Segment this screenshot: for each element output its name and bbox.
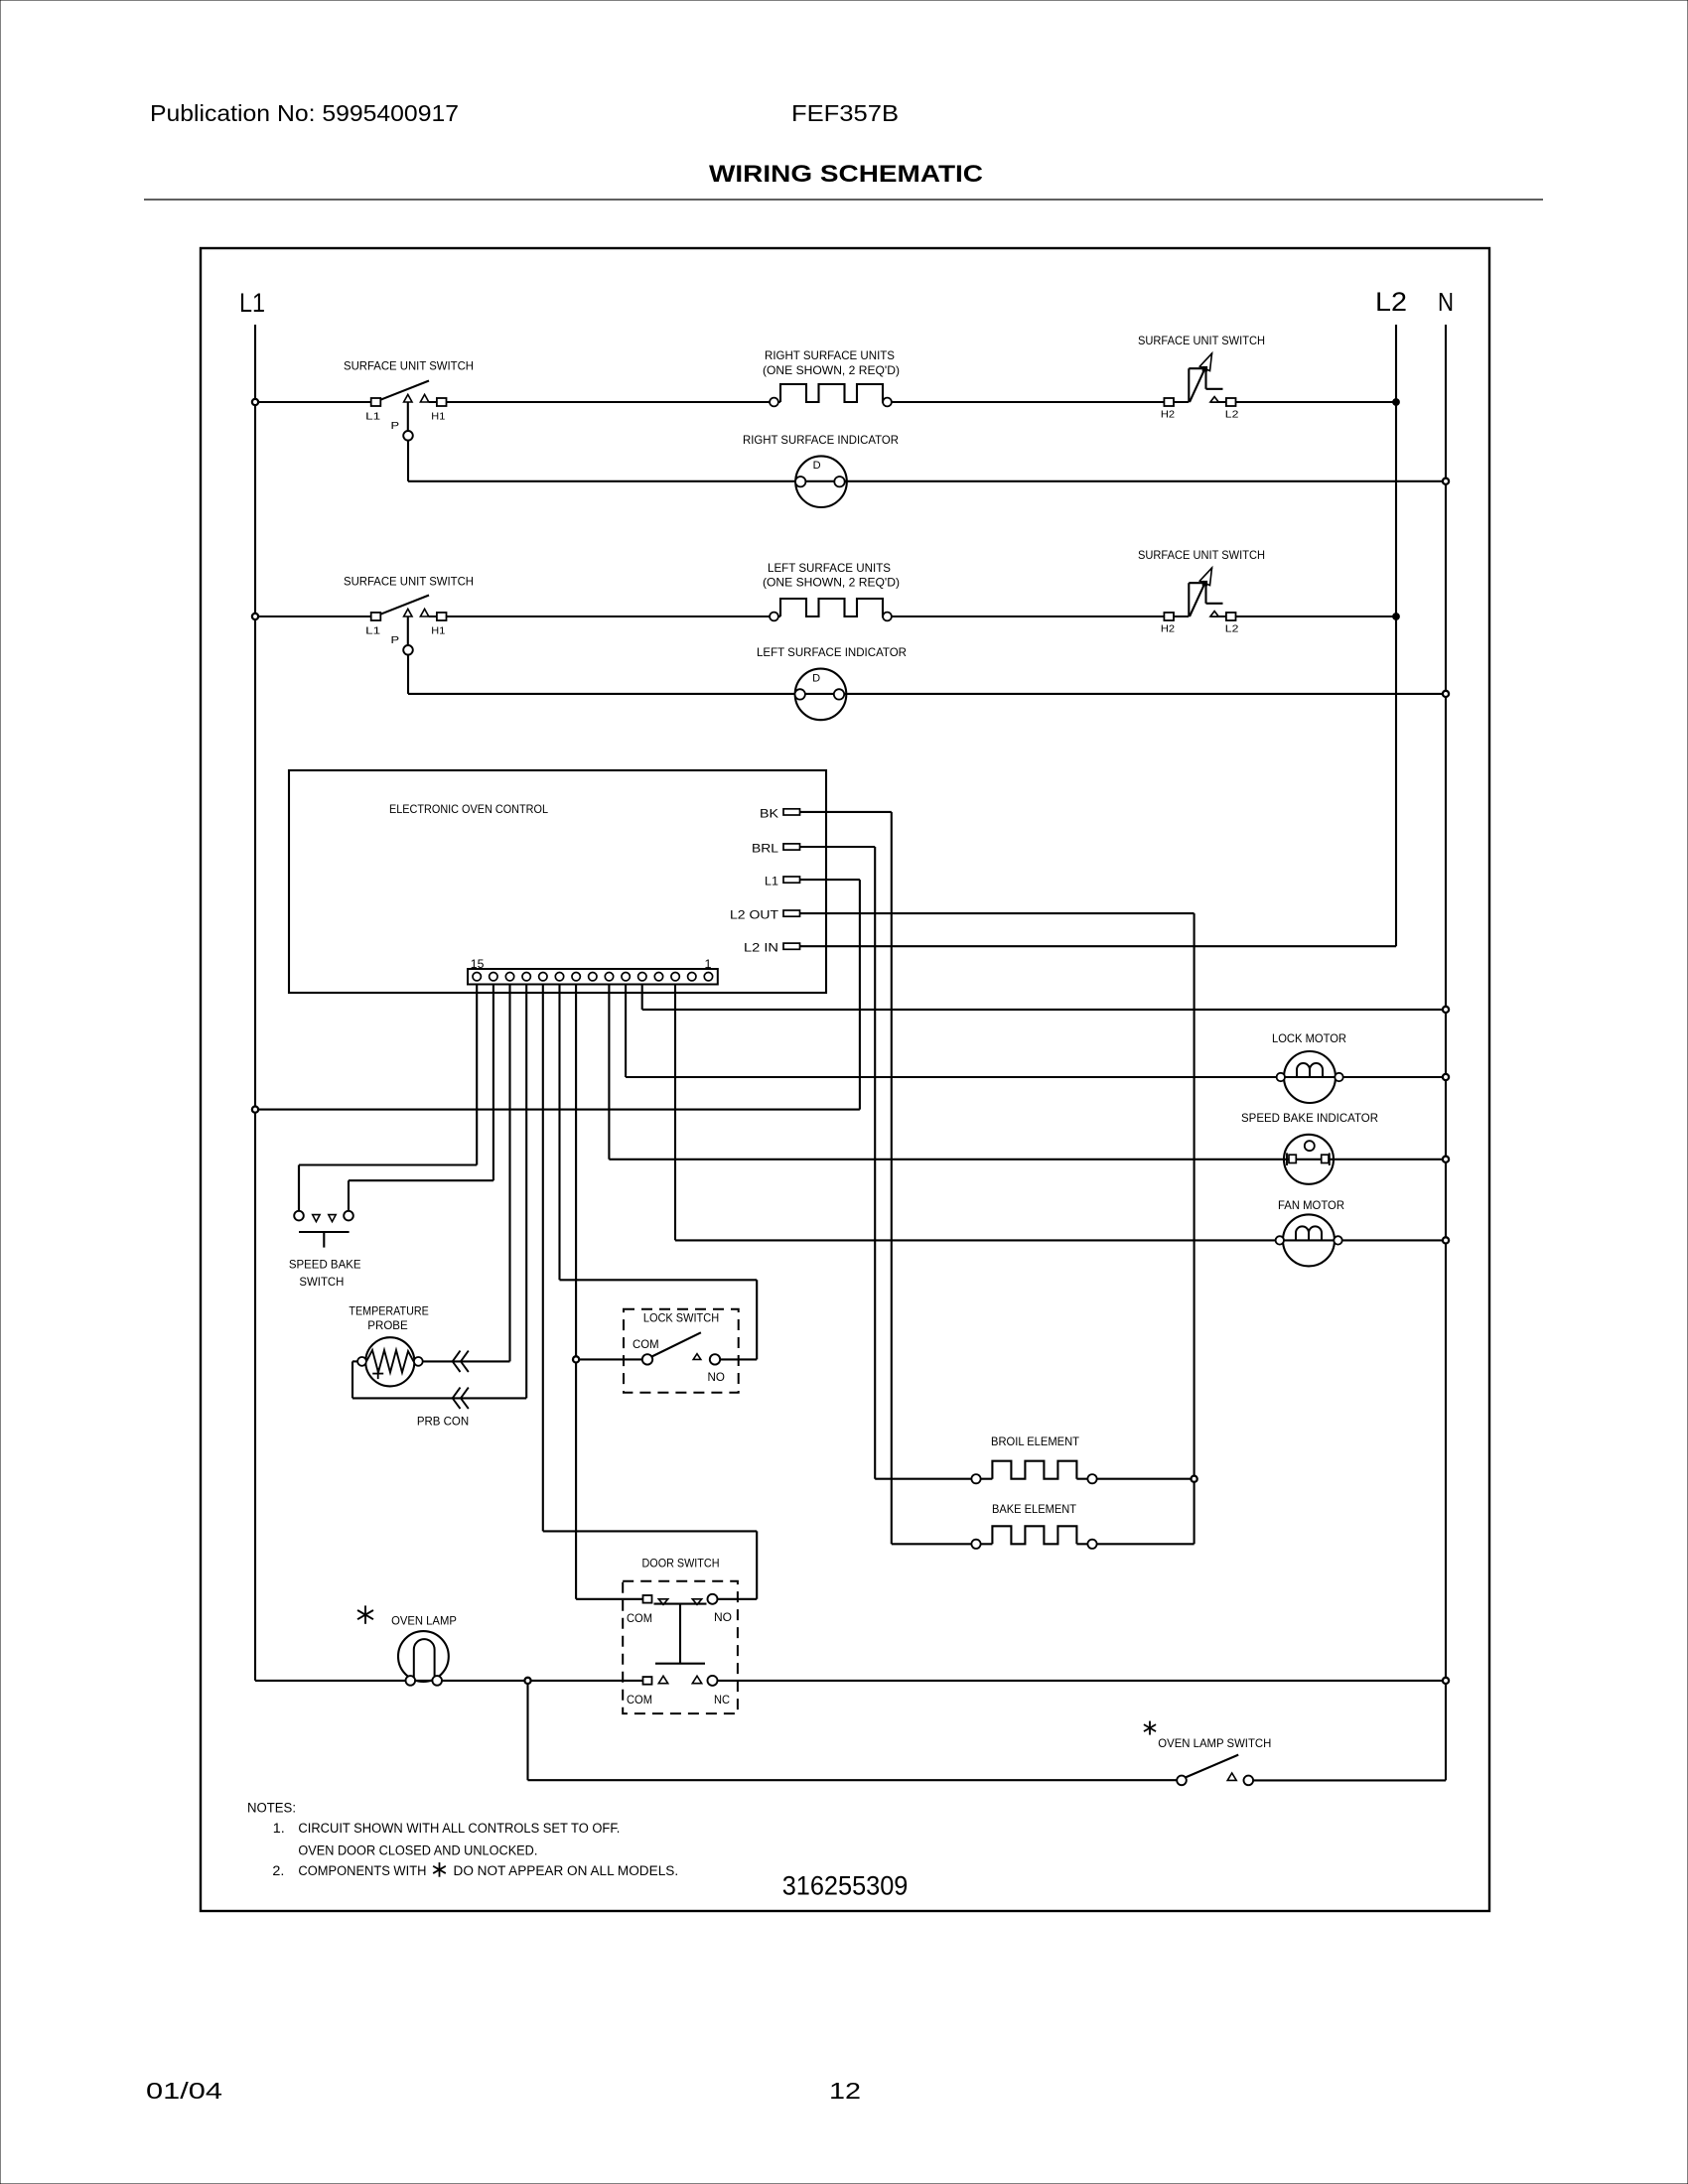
svg-text:COM: COM (627, 1613, 652, 1625)
svg-text:15: 15 (471, 957, 485, 971)
svg-text:H1: H1 (431, 410, 445, 422)
svg-text:SURFACE UNIT SWITCH: SURFACE UNIT SWITCH (1138, 548, 1265, 562)
svg-text:D: D (812, 672, 820, 684)
svg-text:BAKE ELEMENT: BAKE ELEMENT (992, 1502, 1077, 1516)
svg-text:P: P (391, 420, 400, 432)
svg-text:COM: COM (627, 1695, 652, 1706)
svg-text:OVEN LAMP: OVEN LAMP (391, 1614, 457, 1628)
svg-text:L2: L2 (1375, 287, 1407, 317)
svg-text:RIGHT SURFACE UNITS: RIGHT SURFACE UNITS (765, 348, 895, 362)
svg-text:SURFACE UNIT SWITCH: SURFACE UNIT SWITCH (344, 574, 474, 588)
svg-text:L2 IN: L2 IN (744, 941, 778, 955)
svg-text:BK: BK (760, 806, 778, 820)
svg-text:DOOR SWITCH: DOOR SWITCH (642, 1557, 720, 1570)
svg-text:OVEN LAMP SWITCH: OVEN LAMP SWITCH (1158, 1736, 1271, 1750)
svg-text:LOCK MOTOR: LOCK MOTOR (1272, 1031, 1346, 1045)
svg-text:L1: L1 (239, 288, 265, 318)
svg-text:BRL: BRL (752, 842, 778, 856)
svg-text:NO: NO (714, 1612, 732, 1624)
svg-text:LEFT SURFACE INDICATOR: LEFT SURFACE INDICATOR (757, 645, 907, 659)
svg-text:SURFACE UNIT SWITCH: SURFACE UNIT SWITCH (344, 359, 474, 373)
svg-text:1: 1 (705, 957, 712, 971)
svg-text:FAN MOTOR: FAN MOTOR (1278, 1198, 1344, 1212)
svg-text:SURFACE UNIT SWITCH: SURFACE UNIT SWITCH (1138, 334, 1265, 347)
svg-text:NOTES:: NOTES: (247, 1801, 296, 1816)
svg-text:RIGHT SURFACE INDICATOR: RIGHT SURFACE INDICATOR (743, 433, 899, 447)
svg-text:LOCK SWITCH: LOCK SWITCH (643, 1311, 719, 1325)
svg-text:SPEED BAKE: SPEED BAKE (289, 1258, 361, 1272)
svg-text:COM: COM (633, 1339, 659, 1351)
svg-text:COMPONENTS WITH: COMPONENTS WITH (298, 1863, 426, 1878)
svg-text:SPEED BAKE INDICATOR: SPEED BAKE INDICATOR (1241, 1111, 1378, 1125)
svg-text:L1: L1 (765, 875, 778, 888)
svg-text:BROIL ELEMENT: BROIL ELEMENT (991, 1434, 1080, 1448)
svg-text:CIRCUIT SHOWN WITH ALL CONTROL: CIRCUIT SHOWN WITH ALL CONTROLS SET TO O… (298, 1821, 620, 1836)
svg-text:DO NOT APPEAR ON ALL MODELS.: DO NOT APPEAR ON ALL MODELS. (454, 1863, 679, 1878)
svg-text:12: 12 (829, 2078, 861, 2104)
svg-text:OVEN DOOR CLOSED AND UNLOCKED.: OVEN DOOR CLOSED AND UNLOCKED. (298, 1843, 537, 1858)
svg-text:L1: L1 (365, 410, 380, 422)
svg-text:L1: L1 (365, 624, 380, 636)
svg-text:TEMPERATURE: TEMPERATURE (349, 1304, 428, 1318)
svg-text:01/04: 01/04 (146, 2078, 222, 2104)
svg-text:L2: L2 (1225, 408, 1239, 420)
svg-text:2.: 2. (272, 1863, 284, 1878)
svg-text:1.: 1. (273, 1821, 285, 1836)
svg-text:D: D (813, 460, 821, 472)
svg-text:WIRING SCHEMATIC: WIRING SCHEMATIC (709, 161, 983, 188)
svg-text:L2: L2 (1225, 622, 1239, 634)
svg-text:P: P (391, 634, 400, 646)
svg-text:H2: H2 (1161, 408, 1175, 420)
svg-text:H1: H1 (431, 624, 445, 636)
svg-text:LEFT SURFACE UNITS: LEFT SURFACE UNITS (768, 561, 891, 575)
svg-text:H2: H2 (1161, 622, 1175, 634)
svg-text:NO: NO (708, 1372, 725, 1384)
svg-text:FEF357B: FEF357B (791, 100, 899, 126)
svg-text:Publication No: 5995400917: Publication No: 5995400917 (150, 100, 459, 126)
svg-text:N: N (1438, 287, 1454, 317)
svg-text:PRB CON: PRB CON (417, 1415, 469, 1429)
svg-text:ELECTRONIC OVEN CONTROL: ELECTRONIC OVEN CONTROL (389, 802, 548, 816)
svg-text:(ONE SHOWN, 2 REQ'D): (ONE SHOWN, 2 REQ'D) (763, 576, 900, 590)
svg-text:SWITCH: SWITCH (299, 1275, 344, 1289)
svg-text:PROBE: PROBE (367, 1318, 407, 1332)
svg-text:NC: NC (714, 1695, 730, 1706)
svg-text:316255309: 316255309 (782, 1871, 909, 1901)
svg-text:(ONE SHOWN, 2 REQ'D): (ONE SHOWN, 2 REQ'D) (763, 363, 900, 377)
svg-text:L2 OUT: L2 OUT (730, 908, 779, 922)
